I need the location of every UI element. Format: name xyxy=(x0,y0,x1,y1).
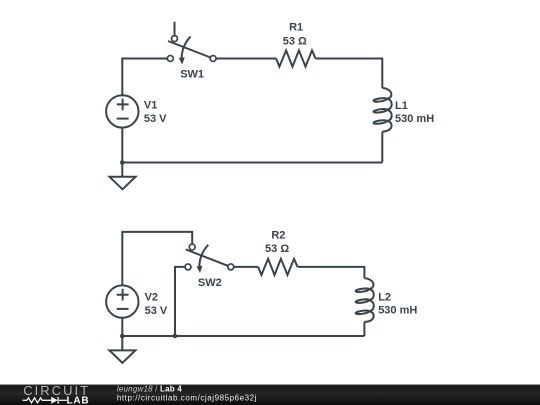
switch SW1 xyxy=(167,22,216,65)
svg-text:V2: V2 xyxy=(145,291,158,303)
wire SW2 to R2 xyxy=(234,266,259,268)
junction dot at SW2 branch xyxy=(173,334,178,339)
svg-text:SW2: SW2 xyxy=(198,277,222,289)
footer bar xyxy=(0,384,540,405)
svg-text:R2: R2 xyxy=(271,229,285,241)
svg-text:http://circuitlab.com/cjaj985p: http://circuitlab.com/cjaj985p6e32j xyxy=(117,394,257,403)
switch SW2 xyxy=(185,244,234,273)
wire V2 top to SW2 top xyxy=(122,232,192,286)
wire L2 bottom xyxy=(363,322,365,336)
svg-text:SW1: SW1 xyxy=(180,68,204,80)
logo diode triangle xyxy=(51,397,58,404)
junction dot at V2 bottom xyxy=(120,334,125,339)
wire R2 to L2 xyxy=(298,267,365,278)
wire R1 to L1 xyxy=(316,59,383,89)
svg-text:L1: L1 xyxy=(395,100,408,112)
svg-text:530 mH: 530 mH xyxy=(395,113,434,125)
junction dot at V1 bottom xyxy=(120,160,125,165)
svg-text:53 V: 53 V xyxy=(144,113,167,125)
bottom wire L2 to V2 xyxy=(122,335,364,337)
svg-text:53 V: 53 V xyxy=(145,305,168,317)
inductor L1 xyxy=(373,88,391,132)
svg-text:530 mH: 530 mH xyxy=(378,304,417,316)
voltage source V2 xyxy=(106,285,138,317)
svg-text:R1: R1 xyxy=(289,22,303,34)
ground (bottom circuit) xyxy=(109,350,135,363)
inductor L2 xyxy=(355,278,373,322)
wire V1 bottom to ground xyxy=(121,128,123,177)
svg-text:LAB: LAB xyxy=(67,396,90,405)
svg-text:L2: L2 xyxy=(378,291,391,303)
svg-text:53 Ω: 53 Ω xyxy=(283,35,307,47)
wire V2 bottom to ground xyxy=(121,318,123,351)
svg-text:leungw18 / Lab 4: leungw18 / Lab 4 xyxy=(117,384,182,393)
resistor R2 xyxy=(258,259,297,275)
voltage source V1 xyxy=(106,95,138,127)
bottom wire L1 to V1 xyxy=(122,162,382,164)
logo symbol row xyxy=(23,397,67,404)
svg-text:53 Ω: 53 Ω xyxy=(265,243,289,255)
svg-text:V1: V1 xyxy=(144,100,157,112)
resistor R1 xyxy=(276,50,315,66)
wire V1 top to SW1 left xyxy=(122,59,167,96)
ground (top circuit) xyxy=(110,177,136,190)
wire L1 bottom xyxy=(381,132,383,163)
wire SW1 to R1 xyxy=(216,58,276,60)
switch SW2 branch wire xyxy=(175,267,185,336)
